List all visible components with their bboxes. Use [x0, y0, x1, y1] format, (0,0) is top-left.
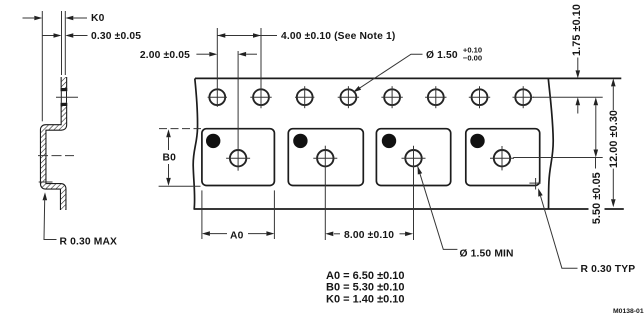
dimension A0 extension lines — [201, 190, 203, 239]
dimension B0 extension lines — [159, 128, 201, 130]
pocket 3 pin-1 dot — [382, 134, 396, 148]
dimension 8.00 extension lines from pocket centres — [324, 146, 326, 240]
sprocket hole 4 — [338, 86, 359, 108]
svg-text:Ø 1.50 MIN: Ø 1.50 MIN — [460, 249, 514, 260]
pocket 1 pin-1 dot — [206, 134, 220, 148]
svg-text:A0 = 6.50 ±0.10: A0 = 6.50 ±0.10 — [326, 270, 405, 282]
svg-text:K0: K0 — [91, 13, 105, 24]
svg-text:R 0.30 MAX: R 0.30 MAX — [60, 237, 118, 248]
dimension B0 line and arrows — [168, 137, 170, 150]
dimension 4.00 line and arrows — [217, 35, 277, 37]
dimension 2.00 extension line to pocket 1 centre — [237, 51, 239, 171]
svg-text:0.30 ±0.05: 0.30 ±0.05 — [91, 31, 141, 42]
callout Ø1.50 sprocket hole leader — [353, 54, 422, 92]
pocket 4 pin-1 dot — [470, 134, 484, 148]
tape top edge — [195, 77, 621, 79]
sprocket hole 7 — [469, 86, 490, 108]
dimension A0 line and arrows — [210, 233, 227, 235]
svg-text:−0.00: −0.00 — [463, 53, 482, 62]
pocket 2 pin-1 dot — [293, 134, 307, 148]
svg-text:R 0.30 TYP: R 0.30 TYP — [581, 264, 636, 275]
sprocket hole 8 — [513, 86, 534, 108]
extension line B (tape inner surface) — [61, 11, 63, 75]
callout Ø1.50 MIN pocket hole leader — [418, 166, 458, 249]
pocket 4 — [466, 129, 540, 186]
pocket centreline (dashed, cross-section) — [38, 155, 74, 157]
dimension 4.00 extension line over hole 2 — [260, 28, 262, 107]
dimension 1.75 (tape edge to sprocket centre) — [533, 96, 603, 98]
sprocket hole 3 — [295, 86, 314, 108]
pocket 4 centre circle — [490, 146, 514, 170]
pocket 2 centre circle — [313, 150, 337, 166]
dimension 8.00 line and arrows — [334, 233, 340, 235]
pocket 3 centre circle — [402, 150, 426, 166]
sprocket hole 1 — [208, 89, 227, 105]
svg-text:2.00 ±0.05: 2.00 ±0.05 — [140, 50, 190, 61]
tape right torn edge — [548, 78, 553, 209]
dimension 5.50 (sprocket centre to pocket centre) — [513, 157, 603, 159]
sprocket hole 6 — [425, 86, 446, 108]
pocket 2 — [288, 129, 363, 186]
svg-text:A0: A0 — [230, 230, 244, 241]
R 0.30 MAX leader — [43, 192, 48, 200]
pocket 1 — [202, 129, 275, 186]
dimension 12.00 (tape width) — [612, 86, 614, 110]
tape left torn edge — [193, 78, 197, 209]
extension line C (tape outer surface) — [64, 11, 66, 75]
extension line A (pocket bottom surface) — [41, 11, 43, 121]
sprocket hole 5 — [381, 86, 402, 108]
dimension 0.30 leader arrows — [42, 35, 53, 37]
tape cross-section profile (hatched) — [43, 77, 64, 210]
svg-text:M0138-01: M0138-01 — [613, 308, 644, 315]
sprocket hole cut in cross-section — [60, 91, 68, 103]
svg-text:Ø 1.50: Ø 1.50 — [426, 50, 458, 61]
label 5.50 ±0.05 (rotated) — [595, 158, 597, 169]
svg-text:12.00 ±0.30: 12.00 ±0.30 — [608, 110, 620, 168]
tape bottom edge (right of 5.50 label) — [605, 208, 624, 210]
svg-text:5.50 ±0.05: 5.50 ±0.05 — [591, 172, 603, 224]
dimension 4.00 extension line over hole 1 — [216, 28, 218, 107]
dimension K0 leader arrows — [23, 17, 35, 19]
sprocket hole 2 — [250, 86, 271, 108]
corner radius tick (cross-section) — [39, 181, 53, 183]
svg-text:B0 = 5.30 ±0.10: B0 = 5.30 ±0.10 — [326, 282, 405, 294]
svg-text:4.00 ±0.10 (See Note 1): 4.00 ±0.10 (See Note 1) — [281, 31, 395, 42]
tape bottom edge — [194, 208, 589, 210]
sprocket hole centre tick (cross-section) — [56, 96, 78, 98]
pocket 3 — [376, 129, 450, 186]
corner radius cross mark (pocket 4) — [529, 182, 540, 184]
pocket 1 centre circle — [226, 150, 250, 166]
svg-text:1.75 ±0.10: 1.75 ±0.10 — [571, 4, 583, 56]
dimension 2.00 arrows — [196, 53, 209, 55]
svg-text:K0 = 1.40 ±0.10: K0 = 1.40 ±0.10 — [326, 293, 405, 305]
R 0.30 TYP leader — [541, 196, 578, 268]
svg-text:B0: B0 — [163, 153, 177, 164]
svg-text:8.00 ±0.10: 8.00 ±0.10 — [344, 230, 394, 241]
